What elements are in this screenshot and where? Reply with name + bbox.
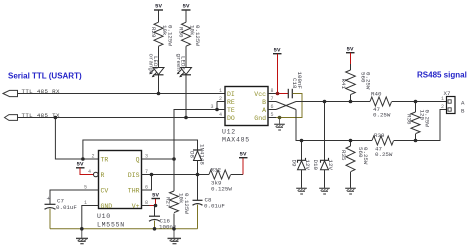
svg-text:RE: RE [227, 99, 235, 106]
svg-text:orange: orange [147, 54, 154, 75]
svg-text:5V: 5V [347, 46, 354, 53]
wire net A line [296, 101, 447, 103]
svg-text:GND: GND [101, 203, 113, 210]
svg-text:0.125W: 0.125W [211, 186, 232, 193]
svg-text:4: 4 [219, 112, 222, 118]
resistor R30 10k 0.125W [178, 22, 201, 67]
wire vertical Q net [174, 102, 217, 192]
svg-text:R40: R40 [371, 91, 382, 98]
svg-text:R27: R27 [165, 197, 172, 208]
svg-text:R: R [101, 172, 105, 179]
svg-text:100nF: 100nF [296, 72, 303, 90]
inversion bubble reset pin U10 [94, 172, 99, 177]
svg-text:B: B [262, 99, 266, 106]
svg-text:DIS: DIS [128, 172, 140, 179]
svg-text:0.125W: 0.125W [166, 25, 173, 46]
svg-text:0.25W: 0.25W [373, 112, 391, 119]
svg-text:A: A [262, 107, 266, 114]
svg-text:5V: 5V [183, 3, 190, 10]
svg-text:3: 3 [211, 104, 214, 110]
svg-text:0.01uF: 0.01uF [204, 203, 225, 210]
svg-text:A: A [461, 99, 465, 106]
resistor R39 47 0.25W [372, 132, 394, 158]
LED LED1 orange [147, 54, 164, 94]
op-amp U10 LM555N box [97, 151, 142, 229]
wire net TTL_485_RX [18, 93, 225, 95]
connector X7 [441, 90, 465, 114]
resistor R40 47 0.25W [370, 91, 392, 119]
svg-text:DO: DO [227, 115, 235, 122]
capacitor C16 100nF [149, 206, 177, 231]
svg-text:R30: R30 [178, 27, 185, 38]
ground symbol below U10 GND [76, 229, 88, 244]
wire DIS to node [150, 174, 198, 176]
svg-text:0.125W: 0.125W [183, 193, 190, 214]
supply 5V symbol above R29 [154, 3, 163, 23]
svg-text:THR: THR [128, 187, 140, 194]
svg-text:5V: 5V [240, 151, 247, 158]
svg-text:B: B [461, 107, 465, 114]
wire CV to C7 [50, 190, 99, 204]
ground symbol under D9 [296, 188, 307, 194]
zener diode D9 12V [291, 141, 312, 189]
svg-text:V+: V+ [132, 203, 140, 210]
svg-text:green: green [175, 54, 182, 71]
svg-text:8: 8 [271, 88, 274, 94]
pin stubs U12 right [268, 94, 276, 118]
svg-text:DI: DI [227, 91, 235, 98]
svg-text:0.25W: 0.25W [365, 72, 372, 90]
svg-text:LM555N: LM555N [97, 222, 125, 229]
pin stubs U10 left CV GND [91, 190, 99, 206]
resistor R27 10k 0.125W [165, 191, 190, 229]
svg-text:1N4148: 1N4148 [199, 144, 206, 165]
svg-text:U12: U12 [222, 129, 236, 136]
ground symbol under R35 [345, 188, 356, 194]
svg-text:2: 2 [219, 96, 222, 102]
svg-text:TR: TR [101, 156, 109, 163]
pin stubs U12 left [217, 102, 225, 110]
supply 5V symbol at R32 [239, 151, 248, 175]
wire U10 GND pin down to rail [82, 206, 91, 229]
capacitor C7 0.01uF [45, 195, 78, 229]
wire TR branch to D8 cathode [83, 140, 198, 159]
port flag TTL_485_TX [5, 115, 18, 121]
svg-text:12V: 12V [304, 160, 311, 171]
resistor R29 10k 0.125W [150, 22, 173, 67]
resistor R41 560 0.25W [340, 64, 372, 102]
svg-text:2: 2 [441, 104, 444, 110]
svg-text:Gnd: Gnd [254, 115, 266, 122]
svg-text:6: 6 [271, 104, 274, 110]
svg-text:D9: D9 [291, 160, 298, 167]
svg-text:5V: 5V [274, 47, 281, 54]
svg-text:5V: 5V [152, 192, 159, 199]
svg-text:Q: Q [136, 156, 140, 163]
zener diode D10 12V [312, 102, 334, 189]
svg-text:R36: R36 [406, 114, 413, 125]
svg-text:CV: CV [101, 187, 109, 194]
capacitor C8 0.01uF [193, 175, 226, 229]
wire Q to RE TE [150, 158, 175, 160]
supply 5V symbol at Vcc [273, 47, 288, 94]
svg-text:Serial TTL (USART): Serial TTL (USART) [8, 72, 82, 81]
svg-text:0.25W: 0.25W [362, 147, 369, 165]
resistor R36 120 0.25W [406, 102, 431, 141]
wire DIS THR tie [150, 175, 152, 191]
svg-text:R41: R41 [340, 79, 347, 90]
svg-text:5V: 5V [155, 3, 162, 10]
supply 5V symbol above R41 [346, 46, 355, 65]
pin stubs U10 right [142, 159, 150, 206]
diode D8 1N4148 [188, 144, 205, 175]
svg-text:0.01uF: 0.01uF [56, 204, 77, 211]
resistor R32 3k9 0.125W [198, 167, 244, 193]
wire TX to TR [55, 118, 98, 160]
svg-text:D10: D10 [312, 160, 319, 171]
svg-text:2: 2 [92, 154, 95, 160]
supply 5V symbol at V+ [150, 192, 161, 206]
svg-text:RS485 signal: RS485 signal [417, 71, 467, 80]
svg-text:R29: R29 [150, 27, 157, 38]
wire net TTL_485_TX [18, 117, 225, 119]
svg-text:5: 5 [271, 112, 274, 118]
svg-text:R32: R32 [211, 167, 222, 174]
LED LED2 green [175, 54, 192, 118]
svg-text:R39: R39 [374, 132, 385, 139]
IC U12 MAX485 box [222, 87, 268, 144]
svg-text:1: 1 [441, 96, 444, 102]
wire crossover A B [276, 102, 296, 110]
svg-text:7: 7 [271, 96, 274, 102]
svg-text:U10: U10 [97, 213, 111, 220]
svg-text:0.125W: 0.125W [194, 25, 201, 46]
svg-text:+: + [47, 195, 51, 202]
ground symbol under U12 [274, 118, 285, 131]
svg-text:1: 1 [219, 88, 222, 94]
wire net B line [296, 110, 447, 141]
svg-text:R35: R35 [340, 150, 347, 161]
svg-text:0.25W: 0.25W [375, 151, 393, 158]
capacitor C18 100nF [276, 72, 303, 118]
svg-text:5V: 5V [77, 161, 84, 168]
port flag TTL_485_RX [3, 90, 18, 96]
svg-text:0.25W: 0.25W [424, 110, 431, 128]
svg-text:MAX485: MAX485 [222, 137, 250, 144]
ground symbol under D10 [319, 188, 330, 194]
resistor R35 560 0.25W [340, 141, 369, 189]
ground symbol main [168, 229, 182, 244]
svg-text:12V: 12V [327, 160, 334, 171]
svg-text:Vcc: Vcc [254, 91, 266, 98]
wire ground rail [50, 228, 198, 230]
supply 5V symbol above R30 [182, 3, 191, 23]
supply 5V symbol at reset pin [76, 161, 93, 175]
svg-text:TE: TE [227, 107, 235, 114]
svg-text:D8: D8 [188, 151, 195, 158]
